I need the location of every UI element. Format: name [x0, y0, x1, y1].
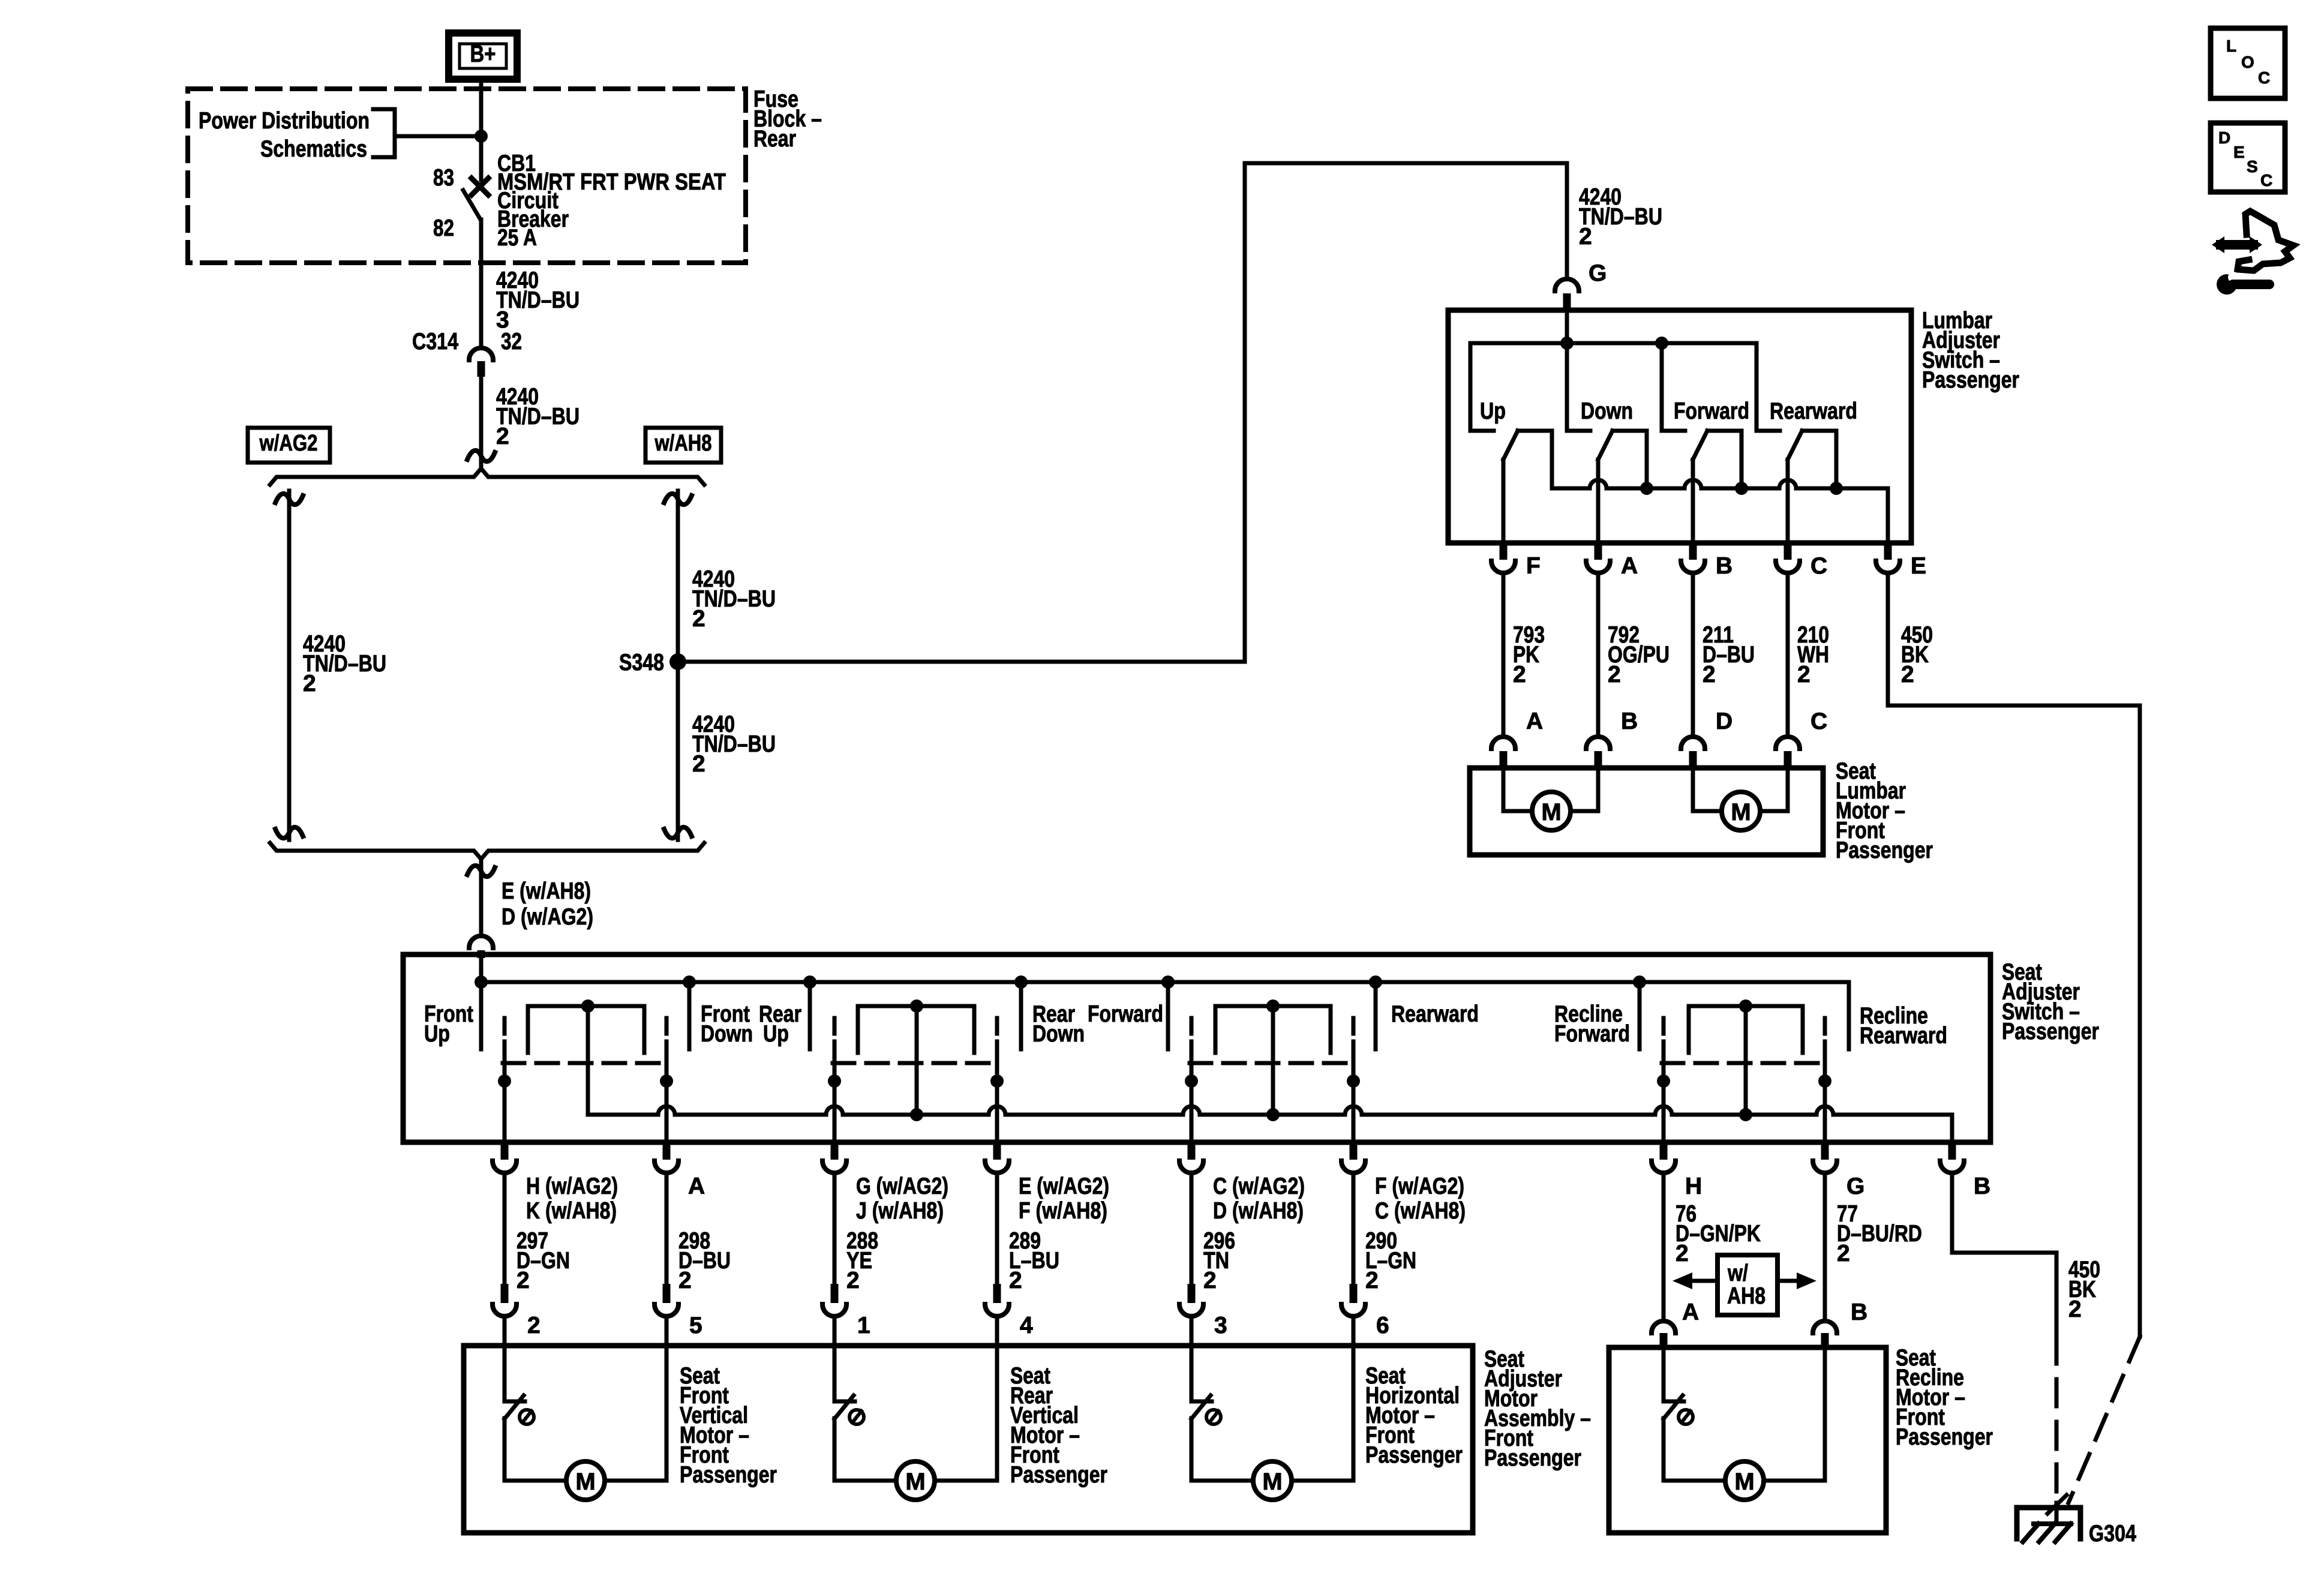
- svg-text:A: A: [1682, 1299, 1699, 1325]
- svg-text:Passenger: Passenger: [1365, 1442, 1463, 1468]
- svg-text:B: B: [1621, 709, 1638, 734]
- svg-text:C (w/AH8): C (w/AH8): [1375, 1198, 1466, 1224]
- svg-text:2: 2: [692, 606, 705, 632]
- svg-text:B: B: [1716, 553, 1733, 579]
- svg-text:D (w/AH8): D (w/AH8): [1213, 1198, 1304, 1224]
- svg-text:Passenger: Passenger: [1896, 1424, 1993, 1450]
- svg-text:L: L: [2226, 37, 2236, 55]
- svg-text:82: 82: [433, 215, 454, 241]
- svg-text:G304: G304: [2089, 1521, 2136, 1547]
- svg-text:F: F: [1526, 553, 1541, 579]
- svg-text:M: M: [1262, 1469, 1282, 1495]
- svg-text:5: 5: [689, 1313, 702, 1338]
- svg-text:Up: Up: [424, 1021, 450, 1047]
- svg-text:Passenger: Passenger: [1484, 1445, 1581, 1471]
- svg-text:A: A: [1621, 553, 1638, 579]
- svg-text:2: 2: [303, 671, 316, 697]
- svg-text:2: 2: [846, 1268, 860, 1293]
- svg-text:w/: w/: [1727, 1260, 1748, 1286]
- svg-text:Schematics: Schematics: [260, 136, 367, 162]
- svg-text:M: M: [905, 1469, 925, 1495]
- svg-text:Passenger: Passenger: [1010, 1462, 1107, 1488]
- svg-text:A: A: [1526, 709, 1543, 734]
- svg-text:Down: Down: [1032, 1021, 1085, 1047]
- svg-text:2: 2: [1901, 662, 1914, 688]
- svg-text:2: 2: [527, 1313, 541, 1338]
- svg-text:Rear: Rear: [753, 126, 796, 152]
- svg-text:G: G: [1846, 1173, 1864, 1199]
- svg-text:2: 2: [692, 751, 705, 777]
- svg-text:Passenger: Passenger: [2002, 1019, 2099, 1044]
- svg-text:Down: Down: [1581, 398, 1633, 424]
- svg-text:AH8: AH8: [1727, 1283, 1765, 1309]
- svg-text:2: 2: [678, 1268, 692, 1293]
- svg-text:Rearward: Rearward: [1770, 398, 1857, 424]
- svg-text:Forward: Forward: [1674, 398, 1749, 424]
- svg-text:Forward: Forward: [1554, 1021, 1630, 1047]
- svg-text:3: 3: [1214, 1313, 1227, 1338]
- svg-text:B+: B+: [470, 41, 496, 67]
- svg-text:C (w/AG2): C (w/AG2): [1213, 1173, 1305, 1199]
- svg-text:2: 2: [1676, 1241, 1689, 1266]
- svg-text:83: 83: [433, 165, 454, 191]
- svg-text:2: 2: [1513, 662, 1526, 688]
- svg-text:M: M: [575, 1469, 595, 1495]
- svg-text:2: 2: [1797, 662, 1810, 688]
- svg-text:4: 4: [1020, 1313, 1033, 1338]
- svg-text:2: 2: [517, 1268, 530, 1293]
- svg-text:6: 6: [1376, 1313, 1389, 1338]
- svg-text:D: D: [1716, 709, 1733, 734]
- svg-text:2: 2: [496, 424, 509, 449]
- svg-text:D (w/AG2): D (w/AG2): [502, 904, 593, 930]
- svg-text:2: 2: [1703, 662, 1716, 688]
- svg-text:C: C: [2258, 68, 2270, 87]
- svg-text:Up: Up: [1480, 398, 1506, 424]
- svg-text:G (w/AG2): G (w/AG2): [856, 1173, 948, 1199]
- svg-text:2: 2: [2068, 1296, 2082, 1322]
- svg-text:Down: Down: [701, 1021, 753, 1047]
- svg-text:Passenger: Passenger: [1922, 367, 2019, 393]
- svg-text:Forward: Forward: [1088, 1001, 1163, 1027]
- svg-text:M: M: [1734, 1469, 1754, 1495]
- svg-text:E (w/AH8): E (w/AH8): [502, 878, 591, 904]
- svg-text:C: C: [2260, 171, 2272, 190]
- svg-text:w/AH8: w/AH8: [654, 431, 712, 456]
- svg-text:B: B: [1974, 1173, 1990, 1199]
- svg-text:A: A: [688, 1173, 705, 1199]
- svg-text:C: C: [1810, 709, 1827, 734]
- svg-text:32: 32: [501, 329, 522, 355]
- svg-text:E (w/AG2): E (w/AG2): [1019, 1173, 1109, 1199]
- svg-text:Passenger: Passenger: [1836, 837, 1933, 863]
- svg-text:Rearward: Rearward: [1391, 1001, 1479, 1027]
- svg-text:F (w/AH8): F (w/AH8): [1019, 1198, 1107, 1224]
- svg-text:E: E: [1911, 553, 1926, 579]
- svg-text:G: G: [1589, 260, 1607, 286]
- svg-text:M: M: [1731, 799, 1750, 825]
- svg-text:O: O: [2241, 53, 2254, 71]
- svg-text:2: 2: [1365, 1268, 1379, 1293]
- svg-text:M: M: [1541, 799, 1561, 825]
- svg-text:C: C: [1810, 553, 1827, 579]
- svg-text:2: 2: [1608, 662, 1621, 688]
- svg-text:H: H: [1685, 1173, 1702, 1199]
- svg-text:B: B: [1851, 1299, 1867, 1325]
- svg-text:25 A: 25 A: [497, 225, 537, 251]
- svg-text:C314: C314: [412, 329, 458, 355]
- svg-text:S: S: [2247, 157, 2258, 176]
- svg-text:2: 2: [1579, 224, 1592, 250]
- svg-text:H (w/AG2): H (w/AG2): [526, 1173, 618, 1199]
- svg-text:E: E: [2233, 143, 2245, 161]
- svg-text:2: 2: [1203, 1268, 1217, 1293]
- svg-text:S348: S348: [619, 650, 664, 676]
- svg-text:2: 2: [1837, 1241, 1850, 1266]
- svg-text:D: D: [2218, 128, 2230, 147]
- svg-text:1: 1: [857, 1313, 870, 1338]
- svg-text:K (w/AH8): K (w/AH8): [526, 1198, 617, 1224]
- svg-text:w/AG2: w/AG2: [259, 431, 318, 456]
- svg-text:J (w/AH8): J (w/AH8): [856, 1198, 944, 1224]
- svg-text:Up: Up: [763, 1021, 789, 1047]
- svg-text:Passenger: Passenger: [680, 1462, 777, 1488]
- svg-text:Rearward: Rearward: [1860, 1023, 1947, 1049]
- svg-text:F (w/AG2): F (w/AG2): [1375, 1173, 1464, 1199]
- svg-text:Power Distribution: Power Distribution: [199, 108, 370, 134]
- svg-text:2: 2: [1009, 1268, 1022, 1293]
